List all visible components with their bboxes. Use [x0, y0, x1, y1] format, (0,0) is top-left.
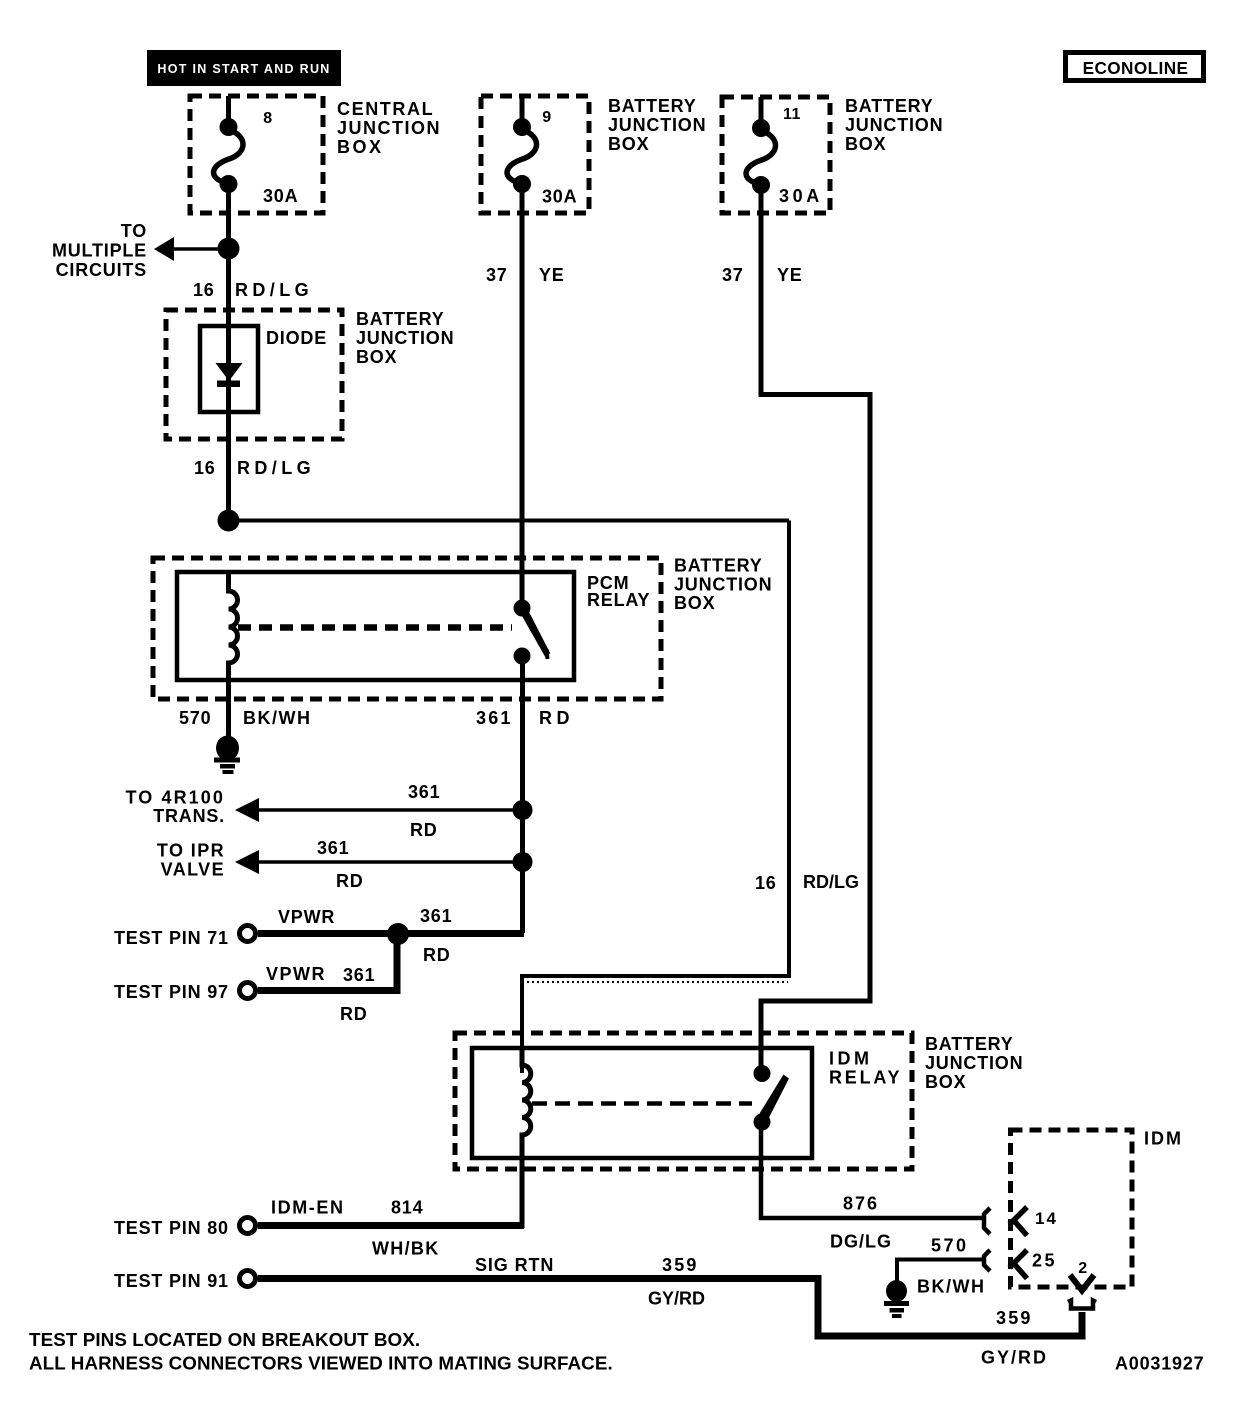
fuse box F8 dashed (central junction box) [190, 96, 323, 213]
svg-text:JUNCTION: JUNCTION [608, 115, 706, 135]
svg-text:BATTERY: BATTERY [608, 96, 697, 116]
label 361 RD (4R100) [408, 782, 440, 840]
label 361 RD below PCM [476, 708, 574, 728]
svg-text:HOT IN START AND RUN: HOT IN START AND RUN [157, 62, 330, 76]
label battery junction box (PCM) [674, 556, 772, 614]
svg-text:TEST PIN 91: TEST PIN 91 [114, 1271, 229, 1291]
svg-text:814: 814 [391, 1198, 423, 1218]
pin 25 connector [1010, 1250, 1058, 1279]
label IDM relay [829, 1049, 902, 1088]
svg-text:JUNCTION: JUNCTION [356, 328, 454, 348]
svg-text:BATTERY: BATTERY [356, 309, 445, 329]
node IPR junction [513, 852, 533, 872]
svg-text:JUNCTION: JUNCTION [845, 115, 943, 135]
svg-text:361: 361 [476, 708, 513, 728]
svg-text:8: 8 [263, 110, 272, 127]
pin 2 arrow [1070, 1260, 1094, 1291]
svg-text:VPWR: VPWR [278, 907, 335, 927]
svg-text:YE: YE [777, 265, 803, 285]
svg-text:CIRCUITS: CIRCUITS [56, 260, 147, 280]
svg-text:2: 2 [1078, 1260, 1087, 1277]
svg-text:BATTERY: BATTERY [925, 1034, 1014, 1054]
label 16 RD/LG (idm feed) [755, 872, 859, 893]
connector at end of 570 wire [984, 1250, 990, 1271]
svg-text:30A: 30A [542, 187, 577, 207]
svg-text:IDM: IDM [1144, 1129, 1183, 1149]
svg-text:BOX: BOX [337, 137, 384, 157]
test pin 97 [114, 934, 397, 1002]
svg-text:GY/RD: GY/RD [648, 1289, 705, 1309]
svg-text:YE: YE [539, 265, 565, 285]
svg-text:37: 37 [486, 265, 508, 285]
label 361 RD (IPR) [317, 838, 364, 891]
svg-text:ALL HARNESS CONNECTORS VIEWED: ALL HARNESS CONNECTORS VIEWED INTO MATIN… [29, 1353, 613, 1374]
diode symbol [216, 363, 243, 387]
IDM relay switch [754, 1065, 790, 1131]
svg-text:RELAY: RELAY [829, 1068, 902, 1088]
wire to 4R100 trans [235, 798, 522, 822]
svg-text:359: 359 [996, 1308, 1033, 1328]
svg-text:BK/WH: BK/WH [917, 1277, 986, 1297]
svg-text:JUNCTION: JUNCTION [674, 575, 772, 595]
diode battery junction box dashed [166, 310, 342, 439]
svg-text:876: 876 [843, 1194, 879, 1214]
label VPWR 361 RD (pin71) [278, 906, 452, 965]
label 37 YE (fuse11) [722, 265, 803, 285]
svg-text:361: 361 [343, 965, 375, 985]
svg-text:570: 570 [179, 708, 211, 728]
svg-text:TEST PIN 80: TEST PIN 80 [114, 1218, 229, 1238]
wire fuse9 down to PCM relay switch [520, 190, 525, 608]
svg-text:BOX: BOX [356, 347, 397, 367]
node 4R100 junction [513, 800, 533, 820]
svg-text:361: 361 [420, 906, 452, 926]
connector at end of 876 wire [984, 1208, 990, 1234]
svg-text:GY/RD: GY/RD [981, 1348, 1048, 1368]
svg-text:BOX: BOX [674, 593, 715, 613]
svg-text:IDM-EN: IDM-EN [271, 1198, 345, 1218]
label central junction box [337, 99, 441, 157]
wire junction down to diode, label 16 RD/LG [226, 248, 231, 330]
svg-text:25: 25 [1032, 1251, 1057, 1271]
label to 4R100 trans [125, 788, 225, 827]
wire idm feed vertical and horizontal 16 RD/LG [522, 521, 789, 1074]
test pin 71 [114, 926, 524, 949]
label IDM-EN 814 WH/BK [271, 1198, 440, 1259]
svg-text:RD: RD [539, 708, 574, 728]
svg-text:37: 37 [722, 265, 744, 285]
fuse box F9 dashed (battery junction box) [481, 96, 589, 213]
pin 14 connector [1010, 1207, 1058, 1236]
svg-text:DIODE: DIODE [266, 328, 327, 348]
label 570 BK/WH (idm) [917, 1236, 986, 1297]
PCM relay switch [514, 600, 551, 665]
svg-text:RELAY: RELAY [587, 590, 650, 610]
node: junction to multiple circuits [218, 238, 240, 260]
svg-text:16: 16 [755, 873, 777, 893]
svg-text:11: 11 [783, 106, 801, 123]
IDM relay solid box [472, 1048, 812, 1158]
svg-text:TEST PIN 71: TEST PIN 71 [114, 928, 229, 948]
IDM module dashed box [1011, 1130, 1133, 1287]
svg-text:30A: 30A [779, 186, 823, 206]
svg-text:16: 16 [194, 458, 216, 478]
wire IDM switch down and right (876) [761, 1130, 985, 1218]
svg-text:BOX: BOX [608, 134, 649, 154]
econoline title box [1066, 53, 1204, 81]
svg-text:30A: 30A [263, 186, 298, 206]
PCM relay coil [229, 572, 238, 680]
fuse box F11 dashed (battery junction box) [722, 97, 830, 213]
svg-text:359: 359 [662, 1255, 699, 1275]
svg-text:VPWR: VPWR [266, 964, 326, 984]
wire fuse9 top stub [520, 96, 525, 130]
svg-text:BATTERY: BATTERY [674, 556, 763, 576]
PCM relay battery junction box dashed [153, 558, 661, 699]
wire arrow to multiple circuits [154, 237, 226, 261]
fuse F9 element [507, 109, 577, 207]
node junction above PCM relay [218, 510, 240, 532]
svg-text:BOX: BOX [925, 1072, 966, 1092]
ground G1 [214, 736, 240, 775]
cup connector under pin 2 [1068, 1301, 1096, 1309]
svg-text:WH/BK: WH/BK [372, 1239, 440, 1259]
IDM relay dashed link [532, 1101, 752, 1106]
svg-text:IDM: IDM [829, 1049, 873, 1069]
svg-text:TRANS.: TRANS. [153, 806, 225, 826]
label 37 YE (fuse9) [486, 265, 565, 285]
IDM relay coil [522, 1048, 531, 1158]
label to IPR valve [157, 841, 225, 880]
fuse F11 element [746, 106, 823, 206]
diode solid box [200, 326, 258, 412]
svg-text:9: 9 [542, 109, 551, 126]
svg-text:TEST PINS LOCATED ON BREAKOUT: TEST PINS LOCATED ON BREAKOUT BOX. [29, 1329, 420, 1350]
svg-text:RD: RD [410, 820, 438, 840]
label 876 DG/LG [830, 1194, 892, 1252]
svg-text:14: 14 [1035, 1209, 1058, 1228]
svg-text:JUNCTION: JUNCTION [337, 118, 441, 138]
label 359 GY/RD (right) [981, 1308, 1048, 1368]
svg-text:TO IPR: TO IPR [157, 841, 225, 861]
svg-text:RD: RD [340, 1004, 368, 1024]
label VPWR 361 RD (pin97) [266, 964, 375, 1024]
svg-text:MULTIPLE: MULTIPLE [52, 241, 147, 261]
wire PCM switch down [520, 664, 525, 933]
wire PCM coil to ground [226, 680, 231, 739]
wire to IPR valve [235, 850, 522, 874]
svg-text:361: 361 [408, 782, 440, 802]
svg-text:TO: TO [121, 221, 147, 241]
PCM relay solid box [177, 572, 574, 680]
footnote text [29, 1329, 613, 1374]
svg-text:TEST PIN 97: TEST PIN 97 [114, 982, 229, 1002]
label PCM relay [587, 573, 650, 610]
wire junction to idm feed (horizontal) [229, 519, 790, 523]
test pin 91 [114, 1271, 1082, 1337]
label battery junction box (diode) [356, 309, 454, 367]
node test pin 71 junction [387, 923, 409, 945]
ground G2 [884, 1280, 909, 1318]
svg-text:BATTERY: BATTERY [845, 96, 934, 116]
wire fuse8 to junction [226, 190, 231, 248]
svg-text:BK/WH: BK/WH [243, 708, 312, 728]
label battery junction box (IDM) [925, 1034, 1023, 1092]
wire fuse11 top stub [759, 97, 764, 130]
label SIG RTN 359 GY/RD [475, 1255, 705, 1309]
svg-text:RD/LG: RD/LG [237, 458, 315, 478]
label 16 RD/LG below diode [194, 458, 315, 478]
svg-text:TO 4R100: TO 4R100 [125, 788, 225, 808]
IDM relay battery junction box dashed [455, 1033, 912, 1169]
svg-text:VALVE: VALVE [161, 860, 225, 880]
PCM relay dashed link [238, 624, 512, 631]
wire IDM coil down to test pin 80 line [520, 1158, 525, 1228]
svg-text:RD: RD [336, 871, 364, 891]
svg-text:SIG RTN: SIG RTN [475, 1255, 554, 1275]
svg-text:BOX: BOX [845, 134, 886, 154]
test pin 80 [114, 1218, 524, 1239]
svg-text:16: 16 [193, 280, 215, 300]
label 570 BK/WH [179, 708, 312, 728]
svg-text:A0031927: A0031927 [1115, 1354, 1204, 1374]
wire 570 to ground [897, 1260, 983, 1282]
svg-text:CENTRAL: CENTRAL [337, 99, 434, 119]
label to multiple circuits [52, 221, 147, 280]
wire through diode [226, 326, 231, 520]
svg-text:361: 361 [317, 838, 349, 858]
svg-text:ECONOLINE: ECONOLINE [1083, 58, 1189, 78]
fuse F8 element [214, 110, 299, 206]
wire artifact dotted line [527, 981, 788, 983]
svg-text:570: 570 [931, 1236, 969, 1256]
wire fuse8 top stub [226, 96, 231, 130]
svg-text:JUNCTION: JUNCTION [925, 1053, 1023, 1073]
svg-text:RD/LG: RD/LG [803, 872, 859, 892]
svg-text:RD: RD [423, 945, 451, 965]
wire fuse11 jog down right down left to IDM relay switch [761, 191, 870, 1073]
hot-in-start-and-run banner [147, 50, 341, 86]
svg-text:DG/LG: DG/LG [830, 1232, 892, 1252]
svg-text:RD/LG: RD/LG [235, 280, 313, 300]
